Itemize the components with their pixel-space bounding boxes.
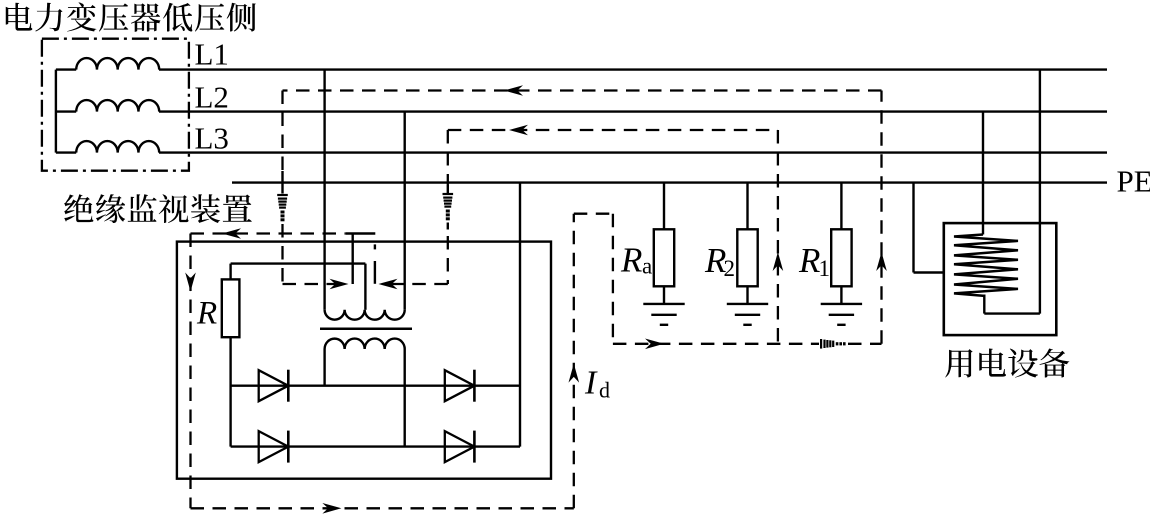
svg-text:PE: PE	[1117, 164, 1150, 199]
svg-text:a: a	[642, 254, 652, 279]
svg-text:L1: L1	[195, 37, 229, 72]
svg-text:L2: L2	[195, 80, 229, 115]
svg-text:I: I	[584, 365, 598, 402]
svg-text:2: 2	[724, 256, 736, 281]
svg-text:d: d	[599, 378, 610, 403]
svg-text:1: 1	[819, 256, 831, 281]
svg-text:R: R	[620, 241, 642, 280]
svg-text:R: R	[798, 241, 820, 280]
svg-text:L3: L3	[195, 121, 229, 156]
svg-text:R: R	[196, 296, 217, 332]
